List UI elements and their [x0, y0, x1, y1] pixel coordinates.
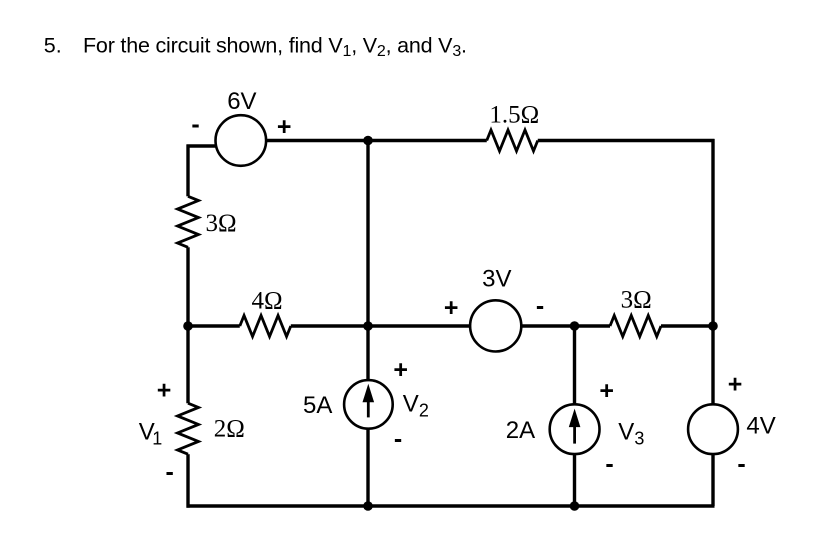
- svg-text:3Ω: 3Ω: [206, 210, 237, 237]
- node dot middle row mid-right: [570, 321, 580, 331]
- wire left stub to 6V: [187, 144, 226, 147]
- svg-text:+: +: [599, 377, 614, 405]
- node dot bottom mid-right: [570, 501, 580, 511]
- svg-text:+: +: [277, 113, 292, 141]
- wire bottom: [187, 504, 715, 507]
- svg-text:V1: V1: [139, 418, 163, 448]
- svg-text:3Ω: 3Ω: [621, 287, 652, 314]
- wire middle row far right: [661, 324, 713, 327]
- svg-text:+: +: [728, 370, 743, 398]
- node dot bottom mid: [363, 501, 373, 511]
- svg-text:3V: 3V: [482, 266, 511, 293]
- svg-text:1.5Ω: 1.5Ω: [489, 102, 539, 129]
- svg-text:For the circuit shown, find V1: For the circuit shown, find V1, V2, and …: [83, 33, 467, 60]
- svg-text:V3: V3: [618, 418, 644, 448]
- node dot middle row right: [708, 321, 718, 331]
- wire left rail middle: [186, 247, 189, 403]
- svg-text:4Ω: 4Ω: [252, 288, 283, 315]
- voltage source 4V circle: [688, 404, 738, 454]
- resistor 3ohm left zigzag: [178, 196, 199, 247]
- wire left rail upper: [186, 145, 189, 197]
- node dot top mid: [363, 136, 373, 146]
- svg-text:-: -: [605, 450, 613, 478]
- wire right rail upper: [711, 139, 714, 410]
- svg-text:+: +: [444, 294, 459, 322]
- svg-text:4V: 4V: [746, 413, 775, 440]
- wire mid-right vertical lower: [573, 450, 576, 506]
- svg-text:2A: 2A: [506, 417, 535, 444]
- wire left rail lower: [186, 454, 189, 508]
- svg-text:-: -: [166, 458, 174, 486]
- wire top from 1.5ohm to right rail: [538, 139, 715, 142]
- wire middle row center: [291, 324, 480, 327]
- resistor 2ohm zigzag: [178, 403, 199, 454]
- node dot middle row left: [183, 321, 193, 331]
- svg-text:+: +: [393, 356, 408, 384]
- wire right rail lower: [711, 450, 714, 506]
- arrow in 2A source: [569, 409, 581, 444]
- current source 2A circle: [550, 404, 600, 454]
- wire top from 6V to 1.5ohm: [255, 139, 487, 142]
- svg-text:V2: V2: [403, 391, 429, 421]
- svg-text:+: +: [157, 376, 172, 404]
- voltage source 3V circle: [470, 300, 521, 351]
- wire mid vertical lower: [366, 425, 369, 506]
- wire mid-right vertical upper: [573, 326, 576, 410]
- wire middle row right of 3V: [512, 324, 610, 327]
- resistor 1.5ohm zigzag: [487, 130, 538, 151]
- resistor 3ohm right zigzag: [610, 316, 661, 337]
- svg-text:5A: 5A: [303, 392, 332, 419]
- wire mid vertical upper: [366, 139, 369, 385]
- svg-text:-: -: [737, 450, 745, 478]
- svg-text:-: -: [536, 292, 544, 320]
- current source 5A circle: [344, 380, 393, 429]
- svg-text:5.: 5.: [44, 33, 62, 57]
- resistor 4ohm zigzag: [240, 316, 291, 337]
- voltage source 6V circle: [216, 115, 267, 166]
- svg-text:6V: 6V: [227, 88, 256, 115]
- svg-text:-: -: [394, 425, 402, 453]
- wire middle row left: [187, 324, 240, 327]
- svg-text:-: -: [191, 111, 199, 139]
- svg-text:2Ω: 2Ω: [214, 416, 245, 443]
- arrow in 5A source: [363, 384, 375, 418]
- node dot middle row mid: [363, 321, 373, 331]
